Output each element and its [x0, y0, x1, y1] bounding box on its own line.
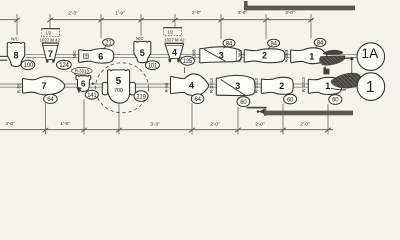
callout ellipse 84 — [223, 39, 235, 47]
svg-text:2: 2 — [279, 81, 284, 91]
svg-text:3: 3 — [219, 50, 224, 60]
finished part bottom hatched — [331, 73, 362, 88]
svg-text:2'-0": 2'-0" — [192, 10, 202, 15]
bottom dim labels — [5, 121, 310, 127]
svg-text:3'-0": 3'-0" — [5, 121, 15, 126]
part 3 lap diagonal — [221, 80, 245, 96]
svg-text:124: 124 — [59, 63, 69, 69]
svg-text:1: 1 — [366, 79, 375, 96]
svg-text:R-368: R-368 — [238, 50, 243, 63]
svg-text:R-55: R-55 — [16, 83, 21, 93]
T mark box — [84, 54, 88, 58]
svg-text:84: 84 — [226, 41, 233, 47]
svg-text:6: 6 — [81, 80, 86, 89]
part 3 workpiece top row — [200, 47, 242, 63]
svg-text:2'-0": 2'-0" — [285, 10, 295, 15]
callout 84 leader — [315, 46, 318, 48]
svg-text:101: 101 — [148, 63, 158, 69]
callout 21 leader — [104, 46, 106, 49]
callout ellipse 219 — [134, 91, 148, 102]
svg-text:84: 84 — [270, 41, 277, 47]
callout 84 leader — [224, 47, 227, 49]
svg-text:R-368: R-368 — [284, 50, 289, 63]
top dimension line — [0, 19, 18, 21]
svg-text:7: 7 — [41, 81, 46, 91]
svg-text:R-3313: R-3313 — [209, 78, 214, 94]
circle label 1 — [357, 73, 385, 101]
svg-text:1027 M 42: 1027 M 42 — [164, 37, 185, 42]
station 5 left wing — [102, 82, 107, 95]
bottom extension verticals — [46, 99, 329, 135]
part 1 workpiece top row — [291, 48, 327, 64]
svg-text:1/2: 1/2 — [45, 31, 52, 36]
svg-text:R-3313: R-3313 — [75, 69, 90, 74]
finished part top hatched lower — [320, 56, 346, 65]
svg-text:2'-0": 2'-0" — [210, 121, 220, 126]
svg-text:219: 219 — [136, 94, 146, 100]
svg-text:2'-0": 2'-0" — [300, 121, 310, 126]
svg-text:R-55: R-55 — [164, 82, 169, 92]
callout 84 leader — [268, 47, 271, 49]
svg-text:64: 64 — [194, 97, 201, 103]
station 7 die trapezoid — [42, 43, 58, 59]
bottom gauge bar with arrow — [247, 107, 267, 109]
svg-text:N/C: N/C — [72, 50, 77, 59]
callout ellipse 84 — [314, 38, 326, 46]
dashed circle around station 5 — [96, 63, 149, 113]
svg-text:R-3313: R-3313 — [254, 78, 259, 94]
svg-text:60: 60 — [287, 97, 294, 103]
svg-text:2'-3": 2'-3" — [68, 10, 78, 15]
callout ellipse 60 — [329, 95, 342, 105]
bottom row transfer rails — [0, 83, 357, 85]
top dim labels — [68, 10, 295, 16]
svg-text:1027 M 42: 1027 M 42 — [40, 37, 61, 42]
svg-text:4: 4 — [172, 47, 177, 57]
part 4 workpiece bottom row — [170, 74, 208, 96]
station callout ellipse 125 — [181, 56, 195, 65]
svg-text:6: 6 — [98, 51, 103, 61]
top row transfer rails — [26, 54, 357, 56]
finished part bottom under edge — [331, 88, 346, 91]
svg-text:125: 125 — [183, 59, 193, 65]
svg-text:64: 64 — [47, 97, 54, 103]
svg-text:21: 21 — [105, 41, 112, 47]
station 4 die feet — [168, 59, 171, 63]
svg-text:2: 2 — [262, 51, 267, 61]
svg-text:1'-9": 1'-9" — [115, 10, 125, 15]
svg-text:100: 100 — [24, 63, 34, 69]
part 3 workpiece bottom row — [216, 75, 255, 95]
svg-text:N/C: N/C — [136, 36, 143, 41]
svg-text:5: 5 — [116, 76, 122, 87]
station 4 die trapezoid — [165, 44, 184, 59]
station callout ellipse 101 — [145, 61, 159, 70]
svg-text:1A: 1A — [361, 46, 379, 61]
top-left stock stub — [0, 55, 7, 57]
svg-text:8: 8 — [13, 50, 18, 60]
station callout ellipse 100 — [21, 60, 35, 69]
svg-text:5: 5 — [140, 48, 145, 58]
part 2 workpiece top row — [244, 49, 285, 63]
circle label 1A — [357, 43, 385, 71]
svg-text:7: 7 — [48, 49, 53, 59]
part 1 workpiece bottom row — [308, 77, 342, 94]
svg-text:84: 84 — [317, 41, 324, 47]
callout ellipse 21 — [103, 39, 114, 46]
plus mark right of station 6 — [91, 82, 94, 85]
finished part bottom notch block — [323, 66, 329, 74]
callout ellipse 64 — [44, 94, 58, 103]
svg-text:60: 60 — [332, 98, 339, 104]
finished part top hatched upper — [323, 50, 343, 55]
svg-text:2'-0": 2'-0" — [238, 10, 248, 15]
svg-text:60: 60 — [240, 100, 247, 106]
callout ellipse 141 — [85, 90, 98, 99]
station 5 die cup top row — [134, 41, 151, 62]
leader line to circle 1A with node dot — [341, 57, 350, 59]
svg-text:3: 3 — [235, 81, 240, 91]
top dim ticks — [14, 18, 314, 22]
top gauge bar — [244, 1, 248, 10]
1/2 dashed box station 4 — [164, 28, 182, 36]
callout ellipse 64 — [191, 94, 204, 104]
svg-text:T: T — [85, 54, 88, 59]
station 5 die large center — [108, 70, 130, 103]
1/2 dashed box station 7 — [42, 29, 60, 37]
svg-text:1: 1 — [309, 52, 314, 62]
part 6 workpiece top row — [79, 49, 114, 64]
svg-text:700: 700 — [114, 88, 123, 94]
svg-text:1/2: 1/2 — [167, 30, 174, 35]
station 7 die feet — [46, 60, 49, 63]
callout ellipse 60 — [284, 94, 297, 104]
part 3 lap diagonal — [204, 49, 226, 61]
bottom dimension line — [0, 129, 333, 131]
station 6 die cup bottom row — [76, 76, 91, 92]
station 8 die cup — [7, 43, 24, 67]
callout ellipse 84 — [268, 39, 280, 47]
svg-text:4: 4 — [189, 81, 194, 91]
part 7 workpiece bottom row — [22, 77, 64, 95]
callout ellipse 60 — [237, 97, 250, 107]
svg-text:R-3313: R-3313 — [301, 77, 306, 93]
svg-text:N/C: N/C — [11, 37, 18, 42]
station callout ellipse 124 — [57, 60, 72, 69]
svg-text:1: 1 — [325, 81, 330, 91]
svg-text:2'-0": 2'-0" — [255, 121, 265, 126]
svg-text:3'-3": 3'-3" — [150, 121, 160, 126]
top extension verticals — [17, 14, 311, 39]
leader from 125 down — [183, 67, 186, 73]
part 2 workpiece bottom row — [261, 77, 293, 94]
station 6 dark wedge — [76, 87, 82, 93]
svg-text:141: 141 — [87, 93, 97, 99]
bottom dim ticks — [43, 128, 331, 132]
svg-text:1'-9": 1'-9" — [60, 121, 70, 126]
station 5 right wing — [130, 82, 136, 95]
R-3313 callout ellipse above station 6 — [71, 67, 92, 74]
